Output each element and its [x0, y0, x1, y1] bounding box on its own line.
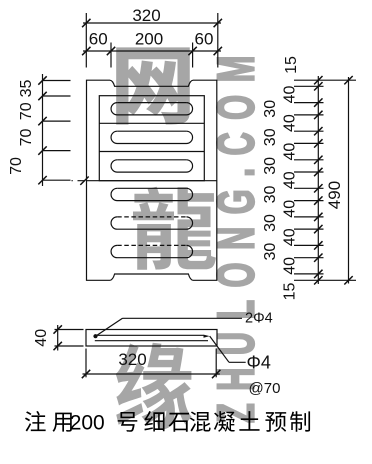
svg-text:Φ4: Φ4 [247, 353, 271, 373]
svg-text:320: 320 [132, 6, 160, 25]
leader phi4 [210, 336, 229, 362]
top rebar [96, 334, 204, 336]
svg-text:15: 15 [282, 283, 299, 301]
svg-text:60: 60 [89, 30, 108, 49]
svg-text:40: 40 [33, 329, 50, 347]
leader 2phi4 [96, 318, 123, 336]
bottom rebar [95, 340, 208, 342]
slot 6 [111, 245, 193, 257]
plan view: grate outline with recessed edges [87, 80, 217, 280]
slot 3 [111, 160, 193, 172]
svg-text:70: 70 [18, 102, 35, 120]
svg-text:30: 30 [262, 128, 279, 146]
right dimension chains [294, 76, 356, 285]
svg-text:2Φ4: 2Φ4 [245, 311, 273, 327]
svg-text:40: 40 [282, 114, 299, 132]
dimension labels [8, 6, 344, 397]
middle line [72, 177, 217, 185]
svg-text:35: 35 [18, 80, 35, 98]
svg-text:30: 30 [262, 243, 279, 261]
svg-text:30: 30 [262, 214, 279, 232]
note text [25, 411, 310, 434]
top dimension group [82, 13, 222, 68]
svg-text:70: 70 [8, 157, 25, 175]
svg-text:@70: @70 [249, 380, 281, 397]
watermark: vertical ZHULONG.COM [208, 43, 266, 423]
watermark: Chinese calligraphy blobs [116, 49, 216, 430]
slot 1 [111, 103, 193, 115]
svg-text:60: 60 [195, 30, 214, 49]
dim line 320 [83, 22, 221, 24]
svg-text:40: 40 [282, 143, 299, 161]
slot 4 [111, 188, 192, 200]
section plate [86, 330, 217, 347]
section: 40 dim [54, 318, 246, 378]
rib line 2 [99, 151, 204, 153]
svg-text:40: 40 [282, 257, 299, 275]
svg-text:70: 70 [18, 129, 35, 147]
slot 2 [111, 131, 193, 143]
svg-text:40: 40 [282, 228, 299, 246]
svg-text:30: 30 [262, 186, 279, 204]
svg-text:30: 30 [262, 100, 279, 118]
rib line 1 [99, 122, 204, 124]
svg-text:320: 320 [118, 350, 146, 369]
svg-text:15: 15 [283, 56, 300, 74]
svg-text:30: 30 [262, 157, 279, 175]
svg-text:200: 200 [70, 411, 105, 434]
svg-text:40: 40 [282, 171, 299, 189]
320 dim bottom [85, 349, 87, 378]
svg-text:40: 40 [282, 86, 299, 104]
svg-text:40: 40 [282, 200, 299, 218]
inner recess rectangle [99, 96, 204, 181]
rebar arrow [204, 335, 210, 338]
svg-text:490: 490 [325, 181, 344, 209]
dim line 60/200/60 [83, 50, 221, 52]
ext lines top [85, 13, 87, 68]
rebar dot [93, 334, 97, 338]
svg-text:200: 200 [135, 30, 163, 49]
left dimension chain [38, 74, 70, 186]
slot 5 [111, 217, 193, 229]
